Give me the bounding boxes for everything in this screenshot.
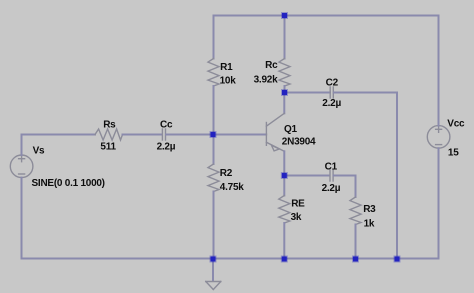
svg-text:R2: R2	[220, 168, 233, 179]
node R3 at ground rail	[352, 256, 359, 263]
resistor Rc	[279, 59, 290, 87]
wire Vcc bottom lead	[438, 148, 440, 258]
capacitor Cc	[162, 129, 165, 140]
node T junction (top rail / Rc)	[281, 12, 288, 19]
wire R3 bottom lead	[355, 225, 357, 259]
node C2 branch at ground rail	[394, 256, 401, 263]
wire ground stub	[212, 259, 214, 282]
resistor R3	[350, 197, 361, 225]
svg-text:4.75k: 4.75k	[220, 182, 244, 193]
node R2 at ground rail	[210, 256, 217, 263]
wire emitter lead to node E	[283, 151, 285, 175]
svg-text:Rc: Rc	[265, 60, 278, 71]
node E junction (emitter/RE/C1)	[281, 172, 288, 179]
wire R2 bottom lead	[213, 192, 215, 259]
resistor RE	[279, 196, 290, 224]
wire Vcc top lead	[438, 16, 440, 126]
svg-text:2.2µ: 2.2µ	[322, 98, 341, 109]
voltage source Vs	[10, 155, 33, 178]
capacitor C2	[330, 87, 333, 98]
svg-text:3k: 3k	[291, 212, 302, 223]
svg-text:511: 511	[100, 141, 116, 152]
wire node E to C1	[284, 175, 329, 177]
voltage source Vcc	[427, 126, 450, 149]
svg-text:15: 15	[448, 148, 459, 159]
wire Cc to node B	[166, 134, 213, 136]
node C junction (Rc/collector/C2)	[281, 89, 288, 96]
svg-text:C2: C2	[326, 78, 339, 89]
wire Vs top lead	[21, 135, 23, 156]
capacitor C1	[330, 170, 333, 181]
wire Rs to Cc	[123, 134, 162, 136]
wire Rc bottom lead to node C	[284, 86, 286, 93]
wire top rail left segment	[214, 15, 285, 17]
ground symbol	[206, 282, 221, 290]
wire collector lead from node C	[283, 93, 285, 114]
wire node C to C2	[285, 92, 331, 94]
wire Rc top lead	[284, 16, 286, 59]
wire R1 top lead	[213, 16, 215, 59]
svg-text:C1: C1	[325, 161, 338, 172]
node B junction (R1/R2/base)	[210, 131, 217, 138]
wire RE top lead	[283, 176, 285, 196]
wire top rail right segment	[285, 15, 439, 17]
wire R1 bottom lead	[213, 86, 215, 135]
resistor R2	[208, 164, 219, 192]
svg-text:1k: 1k	[364, 219, 375, 230]
resistor Rs	[95, 129, 123, 140]
svg-text:Vcc: Vcc	[447, 119, 465, 130]
svg-text:Cc: Cc	[160, 119, 173, 130]
node RE at ground rail	[281, 256, 288, 263]
wire input from Vs to Rs	[22, 134, 96, 136]
svg-text:2N3904: 2N3904	[282, 137, 316, 148]
wire ground rail	[22, 258, 439, 260]
resistor R1	[208, 59, 219, 87]
svg-text:10k: 10k	[220, 76, 237, 87]
svg-text:Vs: Vs	[33, 146, 45, 157]
wire base: node B to Q1 base	[213, 134, 266, 136]
svg-text:3.92k: 3.92k	[254, 74, 278, 85]
svg-text:Q1: Q1	[284, 124, 298, 135]
svg-text:RE: RE	[291, 199, 305, 210]
wire R2 top lead	[213, 135, 215, 165]
wire RE bottom lead	[283, 223, 285, 259]
wire C2 to right branch corner and down	[334, 93, 397, 259]
svg-text:R1: R1	[220, 62, 233, 73]
svg-text:R3: R3	[363, 204, 376, 215]
svg-text:2.2µ: 2.2µ	[157, 141, 176, 152]
wire C1 to R3 corner	[334, 176, 356, 198]
svg-text:2.2µ: 2.2µ	[322, 183, 341, 194]
wire Vs bottom lead	[21, 178, 23, 259]
transistor Q1	[266, 113, 284, 151]
svg-text:SINE(0 0.1 1000): SINE(0 0.1 1000)	[32, 178, 105, 189]
svg-text:Rs: Rs	[103, 119, 116, 130]
